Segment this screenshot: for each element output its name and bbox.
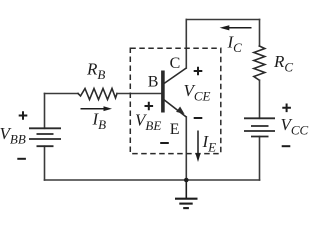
wire right vertical middle [259,80,261,118]
arrow I_B [81,106,113,111]
minus V_CE [194,117,203,119]
minus V_BE [160,142,169,144]
transistor Q1 bar [161,71,165,113]
svg-text:E: E [170,121,180,138]
wire left vertical top [44,94,46,129]
svg-text:C: C [170,55,181,72]
wire emitter vertical [185,117,187,180]
wire top [186,19,259,21]
transistor Q1 emitter arrowhead [176,107,184,115]
plus V_CC [282,104,291,113]
wire base right [117,93,161,95]
junction dot [184,178,189,183]
dashed box [130,48,221,153]
svg-text:B: B [148,74,159,91]
plus V_BB [19,111,28,120]
minus V_CC [282,145,291,147]
resistor R2 R_C [254,46,265,80]
resistor R1 R_B [78,89,117,100]
wire left vertical bottom [44,146,46,180]
plus V_CE [194,67,203,76]
arrow I_C [220,25,252,30]
transistor Q1 emitter lead [164,100,186,117]
ground [175,180,198,208]
wire bottom [45,179,260,181]
wire right vertical bottom [259,137,261,181]
minus V_BB [17,158,26,160]
wire base left [45,93,79,95]
plus V_BE [145,102,154,111]
wire right vertical top [259,20,261,47]
wire collector vertical [185,20,187,69]
battery V_CC [244,118,275,136]
transistor Q1 collector lead [164,68,186,84]
arrow I_E [196,131,201,163]
battery V_BB [29,128,61,146]
